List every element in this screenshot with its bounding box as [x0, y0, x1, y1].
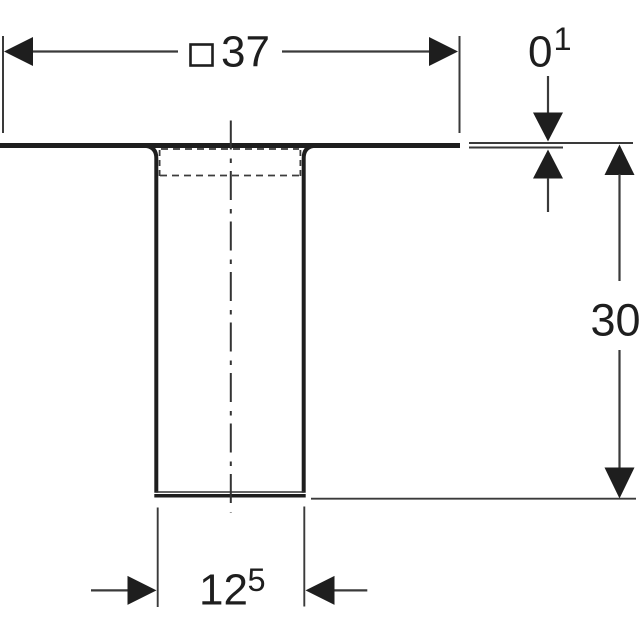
- superscript 5 of label 12: [248, 562, 266, 598]
- dimension line 30 lower segment: [618, 350, 620, 469]
- dimension line 30 upper segment: [618, 174, 620, 281]
- leader line right of 12.5 dimension: [335, 589, 368, 591]
- arrowhead up to plate top (30 dim): [605, 145, 635, 176]
- arrowhead down to plate top (0.1 dim): [533, 113, 563, 142]
- extension line left of 12.5 dimension: [157, 508, 159, 608]
- arrowhead up to plate bottom (0.1 dim): [533, 150, 563, 179]
- arrowhead left of 37 dimension: [4, 37, 33, 66]
- arrowhead right-pointing (12.5 dim): [128, 576, 157, 605]
- svg-text:12: 12: [199, 566, 248, 615]
- tube bottom outer edge: [154, 494, 305, 498]
- extension line right of 12.5 dimension: [303, 507, 305, 607]
- hidden socket bottom (dashed): [160, 175, 300, 177]
- svg-text:5: 5: [248, 562, 266, 598]
- label 0 (plate thickness): [528, 28, 552, 77]
- tube left wall with top fillet: [147, 146, 157, 493]
- dimension line 37 right segment: [282, 50, 432, 52]
- svg-text:0: 0: [528, 28, 552, 77]
- superscript 1 of label 0: [554, 21, 572, 57]
- svg-text:30: 30: [591, 295, 640, 346]
- tube right wall with top fillet: [304, 146, 314, 493]
- tube bottom reference line: [311, 498, 636, 500]
- arrowhead right of 37 dimension: [429, 37, 458, 66]
- dimension line 37 left segment: [30, 50, 178, 52]
- svg-text:1: 1: [554, 21, 572, 57]
- svg-text:37: 37: [221, 28, 270, 77]
- hidden bore left wall (dashed): [159, 150, 161, 176]
- extension line left of 37 dimension: [2, 36, 4, 133]
- extension line right of 37 dimension: [459, 36, 461, 133]
- label 37: [221, 28, 270, 77]
- tail line below up arrowhead (0.1 dim): [547, 178, 549, 212]
- centerline (dash-dot): [230, 121, 232, 513]
- plate bottom reference line: [469, 147, 563, 149]
- hidden hole edge under plate (dashed): [161, 148, 299, 150]
- arrowhead left-pointing (12.5 dim): [306, 576, 335, 605]
- tube bottom inner edge: [156, 491, 304, 493]
- arrowhead down to tube bottom (30 dim): [605, 468, 635, 499]
- label 30: [591, 295, 640, 346]
- plate top reference line: [469, 142, 633, 144]
- plate top flange (edge view): [0, 143, 460, 148]
- leader line below label 0: [547, 76, 549, 113]
- square section symbol: [191, 45, 213, 66]
- hidden bore right wall (dashed): [299, 150, 301, 176]
- leader line left of 12.5 dimension: [91, 589, 128, 591]
- label 12: [199, 566, 248, 615]
